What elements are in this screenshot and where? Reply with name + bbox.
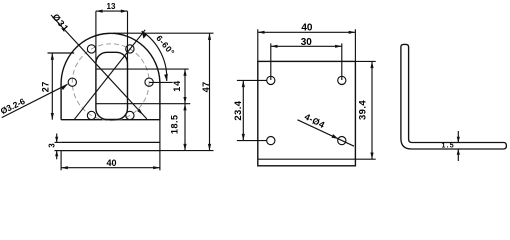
left view: base rect mid line bbox=[61, 141, 160, 143]
dimension 14 extension lines bbox=[96, 68, 189, 70]
left view: base rect top edge bbox=[61, 119, 160, 121]
left view: hole bottom-left bbox=[87, 111, 95, 119]
svg-text:40: 40 bbox=[301, 22, 313, 33]
dimension 27: dim line and arrows bbox=[51, 53, 53, 120]
svg-text:40: 40 bbox=[106, 158, 116, 168]
svg-text:1.5: 1.5 bbox=[442, 143, 455, 150]
dimension 30 middle bbox=[271, 45, 342, 47]
dimension 14: dim line, arrows inside bbox=[184, 69, 186, 104]
middle view: hole top-right bbox=[338, 76, 346, 84]
middle view: rectangle outline bbox=[258, 61, 356, 165]
dimension 39.4 middle right bbox=[371, 61, 373, 159]
middle view: hole bottom-right bbox=[338, 137, 346, 145]
svg-text:27: 27 bbox=[40, 81, 50, 92]
left view: hole bottom-right bbox=[126, 111, 134, 119]
svg-text:39.4: 39.4 bbox=[357, 100, 368, 120]
dimension 13 extension lines (slot sides extended) bbox=[95, 11, 97, 62]
dimension 40 extension lines bbox=[60, 151, 62, 171]
dimension 40 left view bbox=[61, 167, 160, 169]
svg-text:13: 13 bbox=[107, 2, 116, 11]
dimension 1.5 right view bbox=[457, 131, 459, 143]
middle view: hole bottom-left bbox=[267, 137, 275, 145]
svg-text:23.4: 23.4 bbox=[233, 100, 244, 120]
middle view: bend line bbox=[258, 158, 356, 160]
left view: hole left bbox=[68, 78, 76, 86]
left view: hole top-right bbox=[126, 45, 134, 53]
dimension 23.4 middle left bbox=[242, 80, 244, 140]
svg-text:3: 3 bbox=[48, 143, 57, 148]
left view: base rect bottom edge bbox=[61, 150, 160, 152]
diagonal line B through top-right hole (60 deg leg) bbox=[74, 30, 145, 120]
dimension 18.5: dim line, arrows inside bbox=[184, 104, 186, 151]
middle view: hole top-left bbox=[267, 76, 275, 84]
dimension 13: dim line and arrows bbox=[96, 10, 128, 12]
angular dimension 6-60 arc with arrows bbox=[142, 31, 167, 81]
left view: hole right bbox=[145, 78, 153, 86]
dimension 27 top extension line bbox=[48, 52, 75, 54]
left view: plate outline flat left edge + corner + dome + right edge bbox=[61, 33, 160, 119]
dimension 3: arrows outside bbox=[56, 134, 58, 143]
shared bottom extension line 18.5/47 bbox=[160, 150, 214, 152]
leader line A for phi31 with arrow at bolt circle bbox=[51, 15, 147, 119]
right hole horizontal extension line bbox=[149, 81, 173, 83]
dimension 47 top extension line bbox=[113, 32, 214, 34]
dimension 40 middle bbox=[258, 31, 356, 33]
dimension 47: dim line, arrows inside bbox=[209, 33, 211, 150]
svg-text:47: 47 bbox=[201, 81, 211, 92]
leader 4-phi4 through bottom-right hole bbox=[298, 120, 355, 146]
left view: bolt circle phi31 (dashed) bbox=[72, 44, 149, 121]
left view: hole top-left bbox=[87, 45, 95, 53]
svg-text:18.5: 18.5 bbox=[169, 115, 179, 135]
leader phi3.2-6 with arrow at left hole bbox=[2, 84, 68, 117]
svg-text:30: 30 bbox=[301, 37, 313, 48]
left view: central slot (rounded rect) bbox=[96, 52, 128, 119]
svg-text:14: 14 bbox=[172, 80, 182, 92]
dimension 3 extension stubs bbox=[55, 141, 62, 143]
